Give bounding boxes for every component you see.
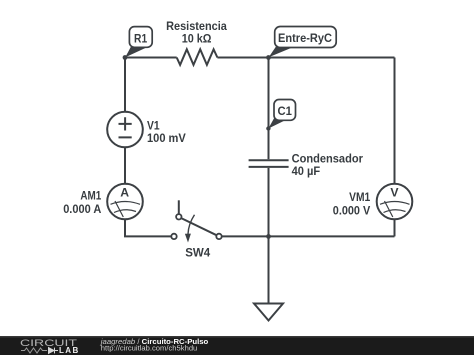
svg-text:http://circuitlab.com/ch5khdu: http://circuitlab.com/ch5khdu bbox=[101, 344, 197, 353]
wire left vertical upper bbox=[124, 58, 126, 112]
node label Entre-RyC bbox=[269, 27, 337, 58]
ground bbox=[254, 236, 283, 320]
wire left vertical middle bbox=[124, 147, 126, 183]
node label R1 bbox=[125, 27, 152, 58]
resistor value label Resistencia 10 kOhm bbox=[166, 19, 227, 46]
capacitor C1 bbox=[249, 160, 289, 167]
node dot C1 anchor bbox=[266, 126, 270, 130]
svg-text:40 µF: 40 µF bbox=[292, 164, 321, 178]
wire middle vertical upper bbox=[268, 58, 270, 160]
switch SW4 bbox=[171, 200, 221, 242]
node label C1 bbox=[268, 100, 295, 129]
ammeter AM1 bbox=[107, 184, 143, 220]
voltage source V1 bbox=[107, 112, 143, 148]
capacitor value label Condensador 40 uF bbox=[292, 152, 364, 178]
wire left vertical lower bbox=[125, 219, 171, 236]
svg-text:0.000 V: 0.000 V bbox=[333, 203, 371, 217]
svg-text:V: V bbox=[390, 186, 399, 200]
svg-text:A: A bbox=[120, 186, 129, 200]
footer bar bbox=[0, 336, 474, 355]
svg-text:0.000 A: 0.000 A bbox=[63, 202, 101, 216]
junction node bottom bbox=[266, 234, 271, 239]
AM1 value label bbox=[63, 188, 101, 216]
wire right vertical lower bbox=[394, 219, 396, 236]
svg-text:AM1: AM1 bbox=[80, 188, 101, 202]
junction node Entre-RyC bbox=[266, 55, 271, 60]
V1 value label bbox=[147, 118, 187, 145]
VM1 value label bbox=[333, 190, 371, 218]
svg-text:Entre-RyC: Entre-RyC bbox=[278, 31, 332, 45]
svg-text:LAB: LAB bbox=[59, 346, 80, 355]
resistor R1 bbox=[177, 49, 218, 65]
footer logo diode symbol bbox=[49, 348, 59, 354]
footer logo resistor zigzag bbox=[21, 348, 47, 353]
wire top-right segment bbox=[217, 57, 394, 59]
wire middle vertical lower bbox=[268, 168, 270, 237]
svg-text:10 kΩ: 10 kΩ bbox=[182, 32, 212, 46]
svg-text:R1: R1 bbox=[134, 32, 147, 46]
svg-text:C1: C1 bbox=[278, 104, 293, 118]
svg-text:SW4: SW4 bbox=[185, 246, 210, 260]
junction node R1-V1 bbox=[123, 55, 128, 60]
svg-text:100 mV: 100 mV bbox=[147, 131, 187, 145]
wire top-left segment bbox=[125, 57, 177, 59]
voltmeter VM1 bbox=[377, 184, 413, 220]
wire bottom segment bbox=[222, 235, 395, 237]
svg-text:VM1: VM1 bbox=[349, 190, 370, 204]
wire right vertical upper bbox=[394, 58, 396, 184]
